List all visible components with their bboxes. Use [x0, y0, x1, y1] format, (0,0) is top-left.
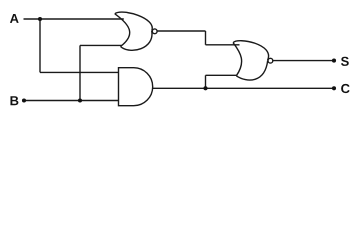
- NOR gate U2 bubble: [268, 58, 273, 63]
- junction node on carry line: [203, 86, 207, 90]
- NOR gate U1 body: [115, 12, 157, 50]
- wire B branch horizontal to NOR1 bottom input: [80, 44, 122, 46]
- wire A input to NOR1 top input: [24, 18, 124, 20]
- AND gate U3 body: [119, 68, 153, 106]
- wire A branch vertical: [39, 19, 41, 72]
- input label B: [10, 96, 18, 105]
- terminal node at S output: [332, 59, 336, 63]
- wire carry branch vertical up: [205, 75, 207, 88]
- wire AND output to C: [153, 87, 334, 89]
- junction node on B line: [78, 98, 82, 102]
- NOR gate U2 body: [233, 41, 273, 80]
- NOR gate U1 bubble: [152, 29, 157, 34]
- wire NOR1 output horizontal: [157, 30, 205, 32]
- terminal node at C output: [332, 86, 336, 90]
- wire NOR1 output vertical drop: [205, 31, 207, 45]
- output label S: [341, 57, 349, 66]
- input label A: [10, 14, 19, 23]
- wire A branch horizontal to AND top input: [40, 71, 119, 73]
- wire B input to AND bottom input: [24, 100, 119, 102]
- wire into NOR2 bottom input: [206, 74, 238, 76]
- wire NOR2 output to S: [273, 60, 334, 62]
- terminal node at B input: [22, 98, 26, 102]
- wire B branch vertical: [79, 45, 81, 100]
- junction node on A line: [38, 17, 42, 21]
- output label C: [341, 84, 350, 93]
- wire into NOR2 top input: [206, 44, 240, 46]
